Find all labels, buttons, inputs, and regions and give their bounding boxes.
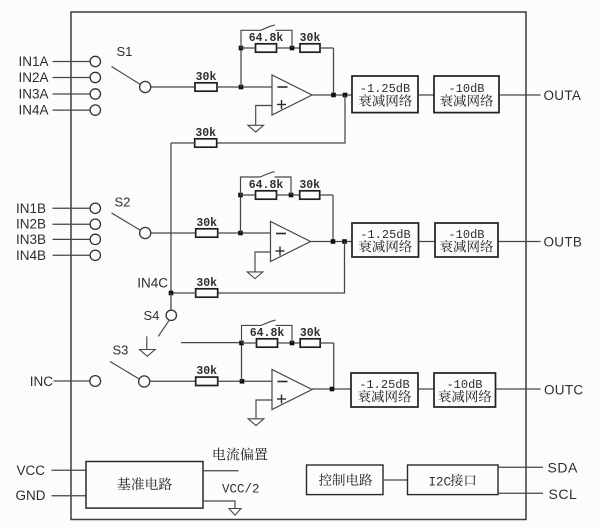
switch S1 label (117, 44, 133, 59)
wire feedback C right (320, 343, 334, 389)
label current bias 电流偏置 (214, 448, 268, 461)
wire branch down to row2 (217, 95, 346, 143)
wire S2 to R5 (151, 232, 196, 234)
svg-text:-1.25dB: -1.25dB (360, 228, 410, 242)
attenuator block A2 -10dB (434, 76, 499, 113)
wire R9 to op-amp U3 inverting input (218, 380, 273, 382)
wire U2 output (311, 241, 353, 243)
ground U3 (248, 419, 264, 426)
switch S3 label (113, 343, 129, 358)
node U1 inverting input (239, 85, 244, 90)
attenuator block A1 -1.25dB (352, 76, 418, 113)
resistor R2 64.8k (249, 32, 284, 52)
resistor R6 64.8k (249, 179, 284, 199)
svg-text:-10dB: -10dB (448, 82, 484, 96)
resistor R1 30k (195, 71, 217, 91)
bypass switch across R6 (241, 172, 292, 195)
label VCC/2 (222, 482, 260, 496)
wire A1 to A2 (418, 94, 434, 96)
svg-text:GND: GND (16, 488, 46, 503)
svg-text:30k: 30k (299, 179, 320, 192)
attenuator block B1 -1.25dB (352, 223, 419, 257)
svg-text:IN4C: IN4C (137, 276, 168, 291)
output pin OUTA (544, 88, 582, 103)
node feedback C left (239, 341, 244, 346)
svg-text:S4: S4 (144, 308, 160, 323)
ground U2 (247, 272, 263, 279)
svg-text:IN2B: IN2B (16, 217, 46, 232)
svg-text:30k: 30k (196, 365, 217, 378)
switch S4 label (144, 308, 160, 323)
wire B2 to OUTB (498, 241, 541, 243)
svg-text:64.8k: 64.8k (250, 327, 285, 340)
wire row2 to IN4C rail (171, 143, 195, 293)
wire ground row to feedback C (181, 342, 241, 344)
input pin INC (30, 374, 101, 389)
svg-text:30k: 30k (300, 327, 321, 340)
svg-text:OUTA: OUTA (544, 88, 582, 103)
bypass switch across R10 (242, 320, 293, 343)
wire bias output (203, 470, 239, 472)
svg-text:30k: 30k (195, 127, 216, 140)
output pin OUTB (544, 235, 583, 250)
input pin IN1B (16, 201, 101, 216)
svg-text:SDA: SDA (548, 460, 578, 476)
svg-text:30k: 30k (300, 32, 321, 45)
wire U1 non-inverting to ground (256, 106, 272, 126)
ground U1 (248, 125, 264, 132)
svg-text:IN3B: IN3B (16, 232, 46, 247)
node U2 inverting input (238, 231, 243, 236)
wire S1 to R1 (151, 86, 195, 88)
wire feedback C segments (242, 342, 301, 344)
node IN4C (169, 291, 174, 296)
svg-text:IN2A: IN2A (18, 70, 48, 85)
wire R5 to op-amp U2 inverting input (218, 232, 271, 234)
svg-text:30k: 30k (196, 71, 217, 84)
svg-text:64.8k: 64.8k (249, 32, 284, 45)
svg-text:S3: S3 (113, 343, 129, 358)
node U1 output branch (343, 93, 348, 98)
input pin IN4B (16, 248, 101, 263)
resistor R7 30k feedback (299, 179, 320, 199)
wire branch down to IN4C row (218, 242, 345, 294)
bypass switch across R2 (241, 25, 292, 48)
op-amp U1 (272, 75, 312, 115)
svg-text:IN1B: IN1B (16, 201, 46, 216)
wire feedback B right (320, 195, 333, 242)
switch S2 label (115, 195, 131, 210)
pin SCL (549, 486, 578, 502)
svg-text:OUTB: OUTB (544, 235, 583, 250)
block control circuit 控制电路 (307, 465, 384, 495)
power pin VCC (16, 463, 86, 478)
attenuator block C1 -1.25dB (351, 373, 418, 407)
op-amp U3 (272, 370, 312, 410)
svg-text:30k: 30k (196, 217, 217, 230)
node U3 inverting input (240, 379, 245, 384)
wire control to I2C (383, 479, 408, 481)
svg-text:-1.25dB: -1.25dB (359, 378, 409, 392)
wire R8 to IN4C node (171, 292, 196, 294)
attenuator block B2 -10dB (435, 223, 498, 257)
svg-text:VCC/2: VCC/2 (222, 482, 260, 496)
wire VCC/2 with arrow (203, 501, 241, 515)
svg-text:SCL: SCL (549, 486, 578, 502)
node U3 output (330, 387, 335, 392)
svg-text:-1.25dB: -1.25dB (360, 82, 410, 96)
wire I2C to SCL (498, 492, 543, 494)
svg-text:IN1A: IN1A (18, 54, 48, 69)
wire U2 non-inverting to ground (255, 252, 271, 272)
input pin IN4A (18, 103, 100, 118)
svg-text:IN4A: IN4A (18, 103, 48, 118)
node feedback A left (239, 46, 244, 51)
input pin IN2A (18, 70, 100, 85)
svg-text:30k: 30k (196, 277, 217, 290)
svg-text:-10dB: -10dB (448, 228, 484, 242)
resistor R5 30k (196, 217, 218, 237)
wire B1 to B2 (419, 241, 436, 243)
input pin IN3B (16, 232, 101, 247)
svg-text:S1: S1 (117, 44, 133, 59)
input pin IN1A (18, 54, 100, 69)
switch S2 (112, 213, 151, 239)
resistor R11 30k feedback (300, 327, 321, 347)
node feedback B left (238, 193, 243, 198)
resistor R4 30k row2 (195, 127, 217, 147)
outer chip boundary box (71, 12, 526, 520)
ground S4 (140, 336, 156, 356)
svg-text:IN3A: IN3A (18, 87, 48, 102)
input pin IN3A (18, 87, 100, 102)
wire feedback B segments (241, 194, 301, 196)
wire feedback C left post (241, 343, 243, 381)
input pin IN2B (16, 217, 101, 232)
wire I2C to SDA (498, 466, 543, 468)
wire U3 output (312, 388, 351, 390)
switch S1 (112, 67, 151, 93)
resistor R10 64.8k (250, 327, 285, 347)
wire A2 to OUTA (499, 94, 541, 96)
resistor R9 30k (196, 365, 218, 385)
node feedback A middle (290, 46, 295, 51)
resistor R3 30k feedback (300, 32, 321, 52)
svg-text:VCC: VCC (16, 463, 45, 478)
wire C2 to OUTC (496, 388, 541, 390)
svg-text:-10dB: -10dB (446, 378, 482, 392)
node U1 output feedback (331, 93, 336, 98)
switch S4 (158, 293, 176, 336)
node U2 output feedback (331, 239, 336, 244)
wire C1 to C2 (418, 388, 434, 390)
wire feedback A right (320, 48, 334, 95)
node feedback C middle (290, 341, 295, 346)
block reference circuit 基准电路 (86, 462, 203, 509)
wire U3 non-inverting to ground (256, 400, 272, 419)
svg-text:INC: INC (30, 374, 54, 389)
svg-text:I2C: I2C (429, 475, 452, 489)
wire feedback B left post (240, 195, 242, 233)
attenuator block C2 -10dB (434, 373, 496, 407)
wire feedback left post (240, 48, 242, 87)
pin SDA (548, 460, 578, 476)
block I2C interface I2C接口 (408, 465, 499, 495)
output pin OUTC (544, 383, 583, 398)
svg-text:64.8k: 64.8k (249, 179, 284, 192)
label IN4C (137, 276, 168, 291)
switch S3 (110, 362, 150, 388)
svg-text:S2: S2 (115, 195, 131, 210)
power pin GND (16, 488, 87, 503)
op-amp U2 (271, 222, 311, 262)
wire R1-R2 gap left (241, 47, 300, 49)
svg-text:OUTC: OUTC (544, 383, 583, 398)
node U2 output branch (342, 239, 347, 244)
wire U1 output (312, 94, 352, 96)
wire R1 to op-amp U1 inverting input (217, 86, 272, 88)
wire S3 to R9 (150, 380, 196, 382)
resistor R8 30k IN4C (196, 277, 218, 297)
node feedback B middle (289, 193, 294, 198)
svg-text:IN4B: IN4B (16, 248, 46, 263)
